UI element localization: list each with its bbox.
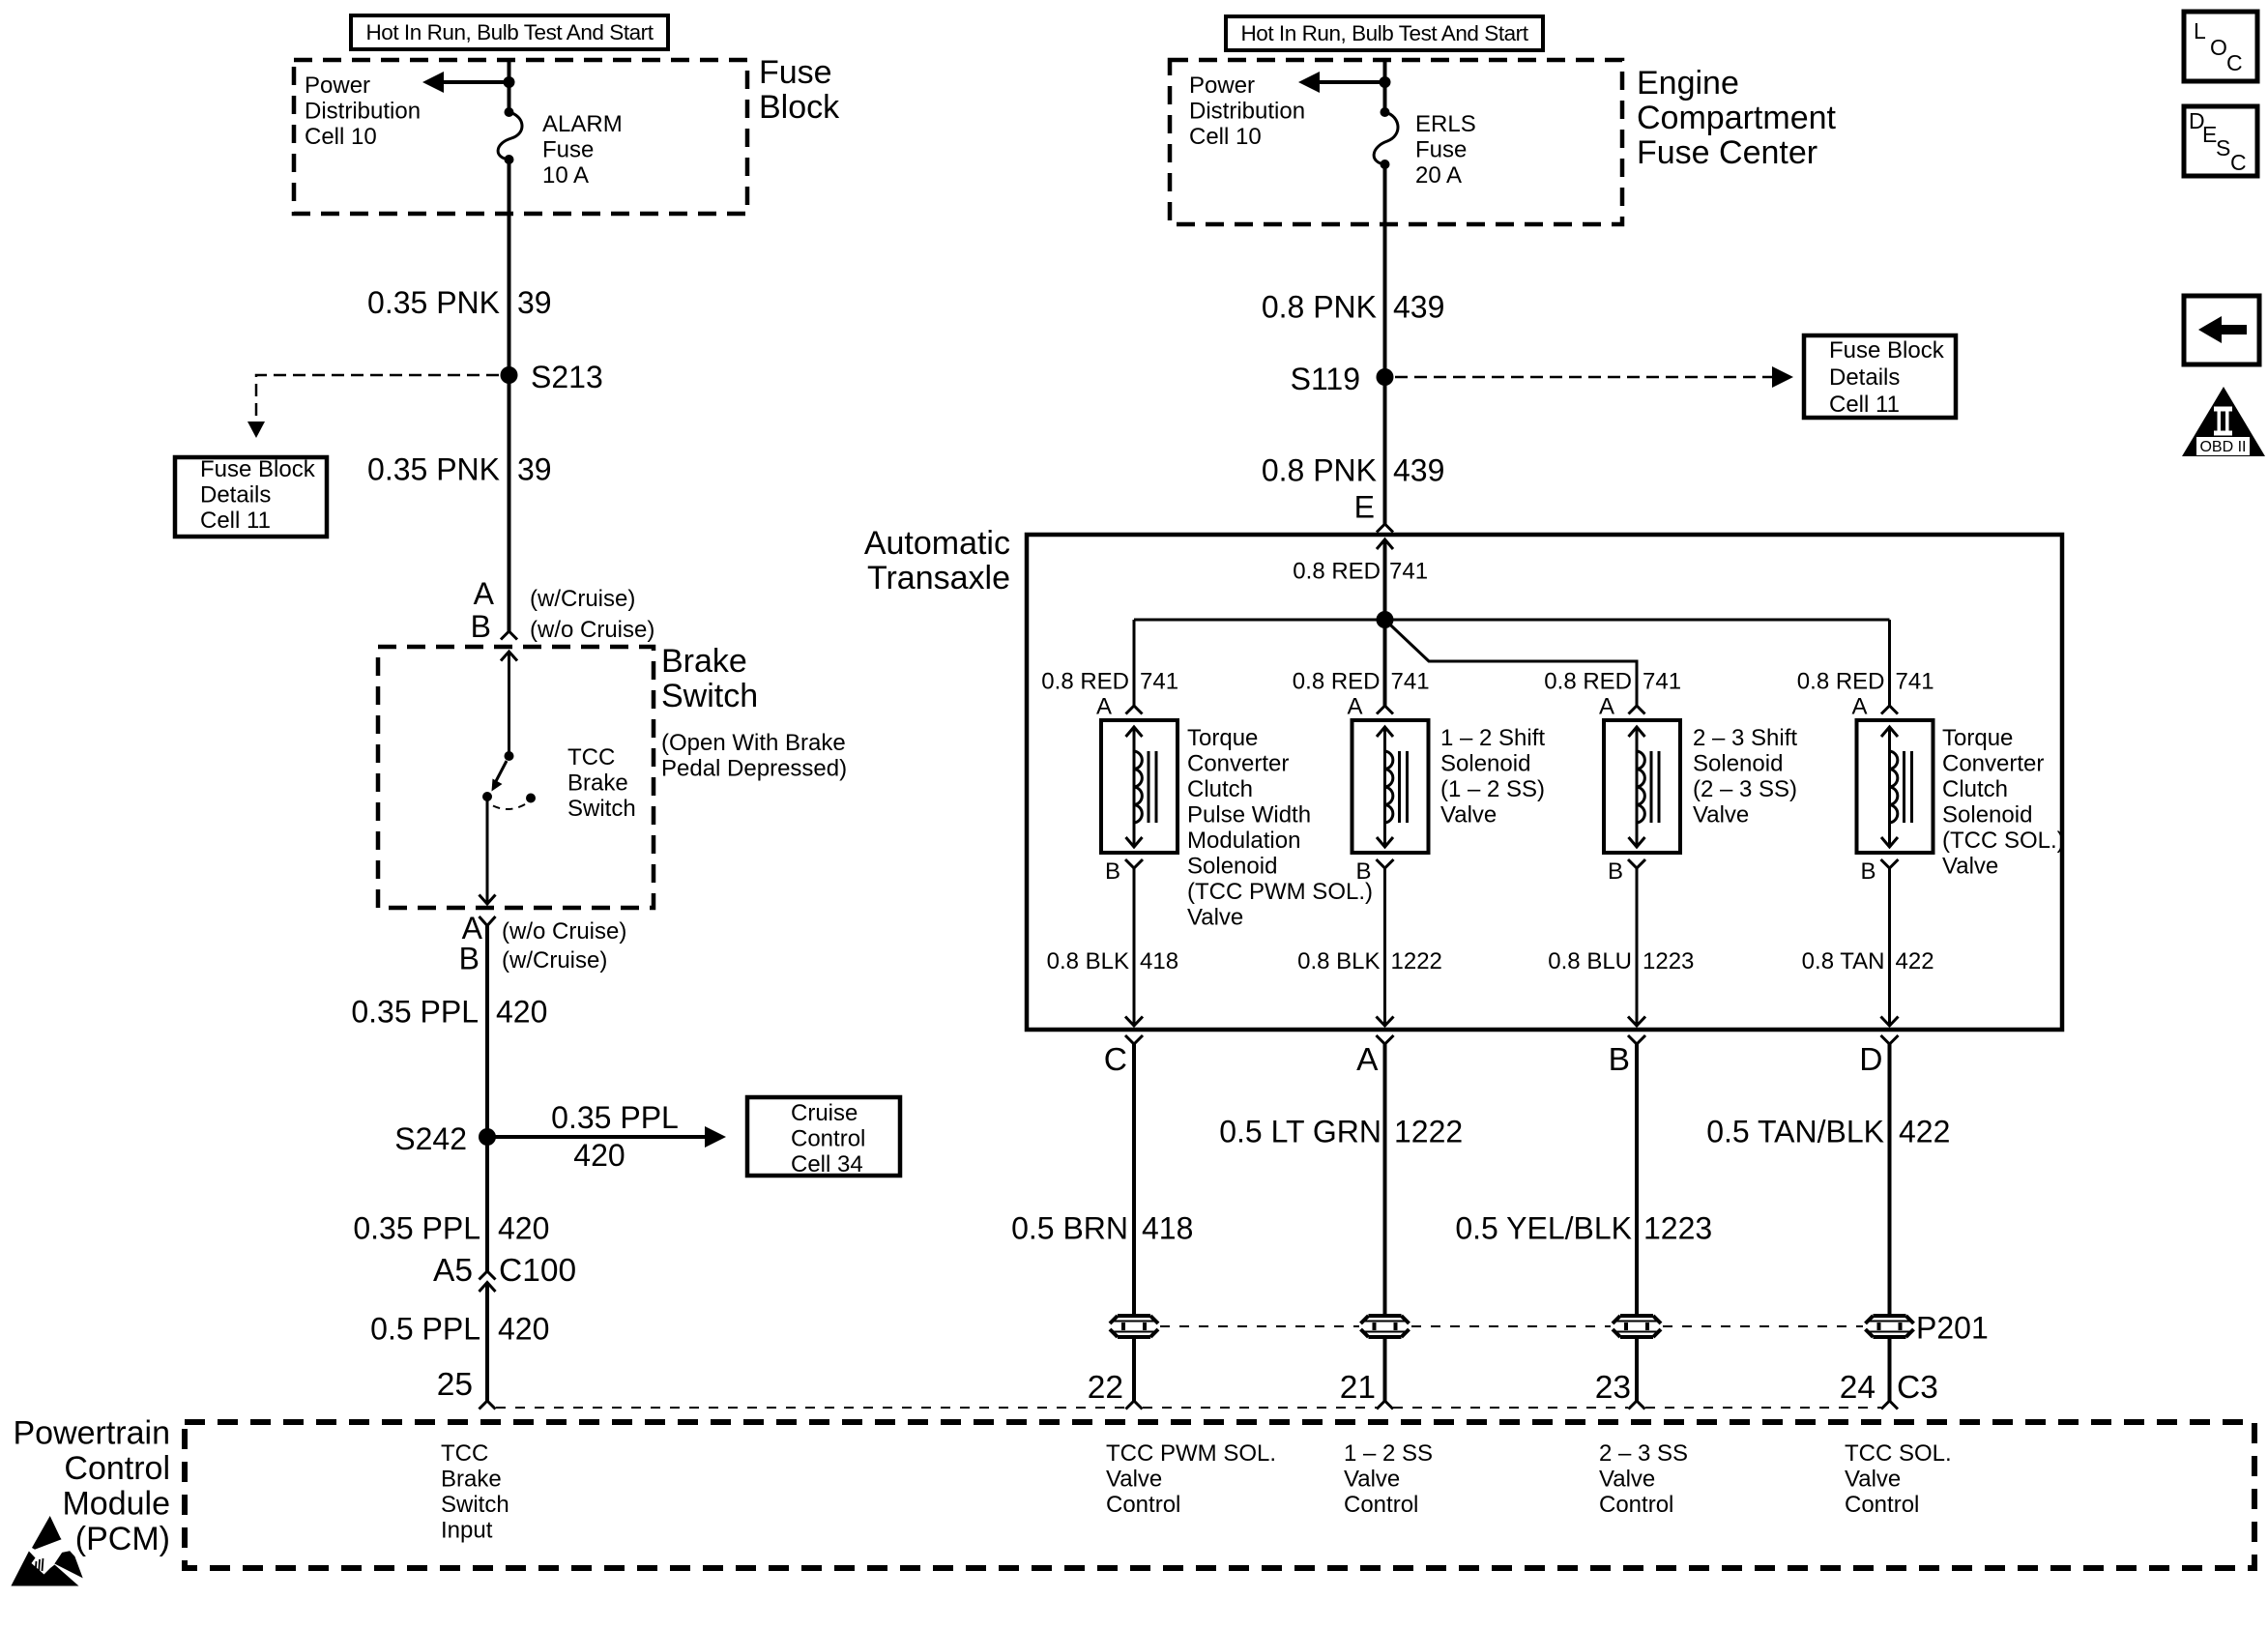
svg-text:Solenoid: Solenoid <box>1440 751 1530 777</box>
svg-text:C100: C100 <box>499 1253 576 1289</box>
svg-text:Valve: Valve <box>1599 1467 1655 1493</box>
svg-text:Clutch: Clutch <box>1187 776 1253 802</box>
svg-text:C3: C3 <box>1897 1370 1938 1406</box>
svg-text:(w/o Cruise): (w/o Cruise) <box>530 617 654 643</box>
svg-text:741: 741 <box>1391 669 1430 695</box>
svg-text:A: A <box>1356 1042 1379 1078</box>
svg-text:Clutch: Clutch <box>1942 776 2008 802</box>
connector P201 pass-through 1 <box>1110 1316 1158 1337</box>
solenoid 2 1-2 shift solenoid coil <box>1352 720 1429 853</box>
svg-text:S213: S213 <box>531 360 603 394</box>
svg-text:0.35 PPL: 0.35 PPL <box>351 995 479 1030</box>
svg-text:0.8 PNK: 0.8 PNK <box>1262 453 1377 488</box>
svg-text:0.5 LT GRN: 0.5 LT GRN <box>1219 1115 1381 1149</box>
node junction dot at power distribution tap (right) <box>1380 76 1391 88</box>
svg-text:Switch: Switch <box>567 796 636 822</box>
node S213 <box>501 360 603 394</box>
svg-text:Distribution: Distribution <box>305 99 421 125</box>
svg-text:24: 24 <box>1840 1370 1875 1406</box>
svg-text:Hot In Run, Bulb Test And Star: Hot In Run, Bulb Test And Start <box>1240 21 1528 45</box>
svg-text:A: A <box>1347 694 1362 720</box>
switch TCC brake switch <box>482 751 536 809</box>
text TCC PWM SOL. Valve Control <box>1106 1440 1276 1518</box>
svg-text:Converter: Converter <box>1942 751 2044 777</box>
connector female half solenoid 2 pin A <box>1377 706 1393 714</box>
svg-text:TCC SOL.: TCC SOL. <box>1845 1440 1952 1467</box>
wire inside brake switch (lower) with down chevron <box>480 797 496 904</box>
text (Open With Brake Pedal Depressed) <box>661 730 847 782</box>
svg-text:1223: 1223 <box>1643 948 1694 974</box>
svg-text:0.5 BRN: 0.5 BRN <box>1011 1211 1128 1246</box>
fuse F1 ALARM 10A <box>498 107 522 164</box>
text 1-2 SS Valve Control <box>1344 1440 1433 1518</box>
connector female half PCM pin 24 <box>1881 1401 1898 1410</box>
svg-text:Fuse: Fuse <box>759 54 832 91</box>
wire P201 to PCM pin 22 <box>1132 1337 1136 1401</box>
svg-text:418: 418 <box>1142 1211 1193 1246</box>
connector male chevron entering transaxle at E <box>1377 539 1393 549</box>
connector female half transaxle pin B <box>1628 1035 1645 1044</box>
connector female half transaxle pin C <box>1125 1035 1143 1044</box>
svg-text:0.35 PPL: 0.35 PPL <box>551 1100 679 1135</box>
fuse block dashed box <box>294 60 747 214</box>
wire solenoid 3 B to transaxle edge <box>1628 868 1645 1026</box>
title Fuse Block <box>759 54 840 126</box>
solenoid 1 TCC PWM solenoid coil <box>1101 720 1178 853</box>
wire label 0.8 RED 741 (branch 3) <box>1544 669 1681 695</box>
wire B to P201 <box>1635 1044 1639 1316</box>
connector P201 pass-through 4 <box>1866 1316 1914 1337</box>
text ALARM Fuse 10 A <box>542 111 623 189</box>
svg-text:Valve: Valve <box>1693 802 1749 829</box>
svg-text:Solenoid: Solenoid <box>1693 751 1783 777</box>
svg-text:Powertrain: Powertrain <box>13 1415 170 1452</box>
svg-text:439: 439 <box>1393 453 1444 488</box>
wire label 0.8 RED 741 (branch 1) <box>1041 669 1178 695</box>
text TCC SOL. Valve Control <box>1845 1440 1952 1518</box>
svg-text:39: 39 <box>517 452 552 487</box>
connector female half solenoid 1 pin A <box>1126 706 1143 714</box>
svg-text:Switch: Switch <box>441 1492 509 1518</box>
svg-text:Details: Details <box>1829 364 1900 391</box>
wire label 0.8 BLK 1222 <box>1297 948 1442 974</box>
svg-text:22: 22 <box>1088 1370 1123 1406</box>
svg-text:Valve: Valve <box>1344 1467 1400 1493</box>
wire label 0.5 BRN 418 <box>1011 1211 1193 1246</box>
wire label 0.5 LT GRN 1222 <box>1219 1115 1463 1149</box>
text TCC Brake Switch Input <box>441 1440 509 1544</box>
symbol ESD warning triangle <box>11 1516 82 1586</box>
wire main vertical (fuse center to transaxle) <box>1383 60 1387 524</box>
svg-text:A: A <box>1599 694 1614 720</box>
svg-text:Power: Power <box>1189 73 1255 99</box>
svg-text:0.8 BLK: 0.8 BLK <box>1297 948 1380 974</box>
connector male chevron entering brake switch <box>501 652 517 661</box>
svg-text:422: 422 <box>1896 948 1934 974</box>
svg-text:Compartment: Compartment <box>1637 100 1837 136</box>
svg-text:10 A: 10 A <box>542 162 589 189</box>
svg-text:TCC PWM SOL.: TCC PWM SOL. <box>1106 1440 1276 1467</box>
symbol back-arrow box <box>2184 296 2259 364</box>
connector female half solenoid 4 pin A <box>1881 706 1898 714</box>
wire feed to solenoid 3 (diagonal) <box>1385 620 1638 706</box>
svg-text:Modulation: Modulation <box>1187 828 1300 854</box>
connector female half PCM pin 22 <box>1126 1401 1143 1410</box>
fuse F2 ERLS 20A <box>1374 107 1398 169</box>
wire dashed to fuse block details <box>247 375 499 438</box>
wire label 0.8 BLU 1223 <box>1548 948 1694 974</box>
svg-text:0.8 RED: 0.8 RED <box>1797 669 1885 695</box>
svg-text:0.5 TAN/BLK: 0.5 TAN/BLK <box>1706 1115 1884 1149</box>
svg-text:422: 422 <box>1899 1115 1950 1149</box>
svg-text:Cell 10: Cell 10 <box>1189 124 1262 150</box>
wire P201 to PCM pin 21 <box>1383 1337 1387 1401</box>
connector female half PCM pin 23 <box>1629 1401 1645 1410</box>
wire label 0.5 TAN/BLK 422 <box>1706 1115 1950 1149</box>
wire dashed between P201 connectors <box>1160 1325 1863 1327</box>
wire arrow to cruise control <box>487 1126 726 1148</box>
svg-text:Valve: Valve <box>1187 905 1243 931</box>
svg-text:0.35 PNK: 0.35 PNK <box>367 452 500 487</box>
wire label 0.8 RED 741 (branch 2) <box>1293 669 1430 695</box>
wire C100 to PCM pin 25 <box>485 1283 489 1402</box>
svg-text:Control: Control <box>1845 1492 1919 1518</box>
svg-text:Cell 10: Cell 10 <box>305 124 377 150</box>
wire P201 to PCM pin 23 <box>1635 1337 1639 1401</box>
svg-text:Input: Input <box>441 1518 493 1544</box>
svg-text:439: 439 <box>1393 290 1444 325</box>
svg-text:2 – 3 Shift: 2 – 3 Shift <box>1693 725 1797 751</box>
feed label box "Hot In Run, Bulb Test And Start" (right) <box>1226 16 1543 50</box>
svg-text:Automatic: Automatic <box>864 525 1010 562</box>
wire drop to solenoid 1 <box>1133 620 1136 706</box>
box Fuse Block Details Cell 11 (left) <box>175 456 327 537</box>
svg-text:741: 741 <box>1896 669 1934 695</box>
svg-text:418: 418 <box>1140 948 1178 974</box>
svg-text:(TCC PWM SOL.): (TCC PWM SOL.) <box>1187 879 1373 905</box>
svg-text:420: 420 <box>498 1312 549 1347</box>
svg-text:Valve: Valve <box>1106 1467 1162 1493</box>
svg-text:Control: Control <box>64 1450 170 1487</box>
svg-text:Pedal Depressed): Pedal Depressed) <box>661 756 847 782</box>
connector female half at brake switch top <box>501 631 517 640</box>
svg-text:C: C <box>2226 50 2243 75</box>
PCM dashed box <box>185 1422 2254 1568</box>
svg-text:A5: A5 <box>433 1253 473 1289</box>
svg-text:(w/Cruise): (w/Cruise) <box>502 947 607 974</box>
svg-text:Transaxle: Transaxle <box>867 560 1010 596</box>
wire label 0.35 PNK 39 (lower) <box>367 452 552 487</box>
svg-text:O: O <box>2210 35 2227 60</box>
svg-text:420: 420 <box>496 995 547 1030</box>
svg-text:Solenoid: Solenoid <box>1187 854 1277 880</box>
svg-text:0.35 PNK: 0.35 PNK <box>367 285 500 320</box>
wire brake switch to S242 <box>485 926 489 1272</box>
wire label 0.35 PNK 39 (upper) <box>367 285 552 320</box>
node S242 <box>394 1121 496 1156</box>
wire rail across transaxle <box>1134 619 1890 622</box>
text label solenoid 3 <box>1693 725 1797 829</box>
svg-text:420: 420 <box>498 1211 549 1246</box>
connector female half solenoid 3 pin B <box>1628 859 1645 868</box>
brake switch dashed box <box>378 647 654 908</box>
svg-text:Torque: Torque <box>1187 725 1258 751</box>
svg-text:A: A <box>474 576 495 611</box>
connector female half at transaxle pin E <box>1377 524 1393 533</box>
svg-text:(TCC SOL.): (TCC SOL.) <box>1942 828 2065 854</box>
wire C to P201 <box>1132 1044 1136 1316</box>
svg-text:Fuse: Fuse <box>542 137 594 163</box>
svg-text:Switch: Switch <box>661 678 758 714</box>
svg-text:Fuse Center: Fuse Center <box>1637 134 1817 171</box>
svg-text:Valve: Valve <box>1942 854 1998 880</box>
svg-text:25: 25 <box>437 1367 473 1403</box>
wire label 0.8 RED 741 (branch 4) <box>1797 669 1934 695</box>
connector female half solenoid 1 pin B <box>1125 859 1143 868</box>
svg-text:Brake: Brake <box>441 1467 502 1493</box>
svg-text:2 – 3 SS: 2 – 3 SS <box>1599 1440 1688 1467</box>
wire label 0.5 YEL/BLK 1223 <box>1455 1211 1712 1246</box>
node junction dot in transaxle <box>1377 611 1394 628</box>
svg-text:0.8 RED: 0.8 RED <box>1293 559 1381 585</box>
svg-text:(Open With Brake: (Open With Brake <box>661 730 846 756</box>
svg-text:OBD II: OBD II <box>2199 439 2246 455</box>
svg-text:21: 21 <box>1340 1370 1376 1406</box>
svg-text:Solenoid: Solenoid <box>1942 802 2032 829</box>
wire label 0.8 PNK 439 (upper) <box>1262 290 1445 325</box>
svg-text:S: S <box>2216 135 2230 160</box>
RIGHT-COLUMN <box>1170 16 1956 533</box>
svg-text:(1 – 2 SS): (1 – 2 SS) <box>1440 776 1545 802</box>
box Cruise Control Cell 34 <box>747 1097 900 1177</box>
solenoid 4 TCC solenoid coil <box>1857 720 1934 853</box>
svg-text:Converter: Converter <box>1187 751 1289 777</box>
PCM <box>13 1035 2254 1568</box>
svg-text:P201: P201 <box>1916 1311 1989 1346</box>
engine compartment fuse center dashed box <box>1170 60 1622 224</box>
box Fuse Block Details Cell 11 (right) <box>1804 335 1956 418</box>
connector P201 pass-through 2 <box>1361 1316 1410 1337</box>
connector female half solenoid 3 pin A <box>1629 706 1645 714</box>
svg-text:0.8 RED: 0.8 RED <box>1041 669 1129 695</box>
wire E to junction <box>1383 539 1387 620</box>
svg-text:L: L <box>2194 18 2206 44</box>
title Automatic Transaxle <box>864 525 1010 596</box>
LEFT-COLUMN <box>175 15 900 1410</box>
svg-text:Module: Module <box>62 1486 170 1523</box>
svg-text:Cell 11: Cell 11 <box>200 508 271 534</box>
wire P201 to PCM pin 24 <box>1888 1337 1892 1401</box>
wire arrow to power distribution (right) <box>1298 72 1385 93</box>
svg-text:TCC: TCC <box>567 744 615 770</box>
wire drop to solenoid 2 <box>1383 620 1387 706</box>
svg-text:Distribution: Distribution <box>1189 99 1305 125</box>
symbol DESC box <box>2184 106 2257 176</box>
node junction dot at power distribution tap <box>504 76 515 88</box>
svg-text:Pulse Width: Pulse Width <box>1187 802 1311 829</box>
svg-text:B: B <box>1860 858 1875 885</box>
svg-text:Torque: Torque <box>1942 725 2013 751</box>
wire solenoid 1 B to transaxle edge <box>1125 868 1143 1026</box>
wire solenoid 2 B to transaxle edge <box>1377 868 1394 1026</box>
svg-text:D: D <box>1859 1042 1882 1078</box>
svg-text:S242: S242 <box>394 1121 467 1156</box>
text label solenoid 4 <box>1942 725 2065 880</box>
svg-text:Control: Control <box>1344 1492 1418 1518</box>
svg-text:741: 741 <box>1389 559 1428 585</box>
svg-text:1 – 2 Shift: 1 – 2 Shift <box>1440 725 1545 751</box>
wire solenoid 4 B to transaxle edge <box>1881 868 1899 1026</box>
svg-text:C: C <box>2230 150 2247 175</box>
wire label 0.8 RED 741 (feed) <box>1293 559 1428 585</box>
svg-text:TCC: TCC <box>441 1440 488 1467</box>
svg-text:0.8 RED: 0.8 RED <box>1544 669 1632 695</box>
connector female half transaxle pin D <box>1881 1035 1899 1044</box>
solenoid 3 2-3 shift solenoid coil <box>1604 720 1680 853</box>
wire arrow to power distribution <box>422 72 509 93</box>
svg-text:C: C <box>1104 1042 1127 1078</box>
svg-text:Brake: Brake <box>567 770 628 797</box>
title Powertrain Control Module (PCM) <box>13 1415 170 1558</box>
svg-text:(PCM): (PCM) <box>75 1521 170 1557</box>
feed label box "Hot In Run, Bulb Test And Start" (left) <box>351 15 668 49</box>
svg-text:39: 39 <box>517 285 552 320</box>
svg-text:0.8 RED: 0.8 RED <box>1293 669 1381 695</box>
automatic transaxle box <box>1027 535 2062 1030</box>
connector P201 pass-through 3 <box>1613 1316 1661 1337</box>
svg-text:420: 420 <box>573 1138 625 1173</box>
svg-text:Cell 11: Cell 11 <box>1829 392 1900 418</box>
svg-text:E: E <box>1354 490 1375 525</box>
svg-text:0.5 PPL: 0.5 PPL <box>370 1312 480 1347</box>
svg-text:(w/o Cruise): (w/o Cruise) <box>502 918 626 945</box>
wire dashed arrow to fuse block details (right) <box>1395 366 1793 388</box>
svg-text:Cruise: Cruise <box>791 1100 858 1126</box>
svg-text:Valve: Valve <box>1845 1467 1901 1493</box>
svg-text:B: B <box>1609 1042 1630 1078</box>
svg-text:1 – 2 SS: 1 – 2 SS <box>1344 1440 1433 1467</box>
svg-text:Control: Control <box>1106 1492 1180 1518</box>
svg-text:741: 741 <box>1140 669 1178 695</box>
wire inside brake switch (upper) <box>508 652 510 756</box>
svg-text:0.8 PNK: 0.8 PNK <box>1262 290 1377 325</box>
text 2-3 SS Valve Control <box>1599 1440 1688 1518</box>
svg-text:Control: Control <box>1599 1492 1673 1518</box>
svg-text:0.8 TAN: 0.8 TAN <box>1802 948 1885 974</box>
connector female half below brake switch <box>480 916 496 926</box>
svg-text:Fuse Block: Fuse Block <box>200 456 316 482</box>
svg-text:1223: 1223 <box>1643 1211 1712 1246</box>
wire dashed connector C3 row <box>496 1407 1881 1409</box>
svg-text:(2 – 3 SS): (2 – 3 SS) <box>1693 776 1797 802</box>
svg-text:B: B <box>1608 858 1623 885</box>
svg-text:Hot In Run, Bulb Test And Star: Hot In Run, Bulb Test And Start <box>365 20 654 44</box>
svg-text:Fuse Block: Fuse Block <box>1829 337 1945 363</box>
wire A to P201 <box>1383 1044 1387 1316</box>
symbol OBD II triangle <box>2182 387 2265 456</box>
svg-text:A: A <box>1096 694 1112 720</box>
svg-text:Block: Block <box>759 89 840 126</box>
svg-text:Control: Control <box>791 1126 865 1152</box>
text TCC Brake Switch <box>567 744 636 822</box>
svg-text:ERLS: ERLS <box>1415 111 1476 137</box>
connector female half PCM pin 21 <box>1377 1401 1393 1410</box>
svg-text:23: 23 <box>1595 1370 1631 1406</box>
svg-text:B: B <box>459 942 480 976</box>
connector female half at PCM pin 25 <box>480 1401 496 1410</box>
connector female half transaxle pin A <box>1377 1035 1394 1044</box>
node S119 <box>1291 362 1394 396</box>
wire label 0.5 PPL 420 <box>370 1312 549 1347</box>
svg-text:A: A <box>1851 694 1867 720</box>
text label solenoid 2 <box>1440 725 1545 829</box>
svg-text:0.5 YEL/BLK: 0.5 YEL/BLK <box>1455 1211 1632 1246</box>
svg-text:S119: S119 <box>1291 362 1360 396</box>
title Brake Switch <box>661 643 758 714</box>
wire label 0.35 PPL 420 (lower) <box>353 1211 549 1246</box>
svg-text:Power: Power <box>305 73 370 99</box>
svg-text:20 A: 20 A <box>1415 162 1462 189</box>
wire label 0.8 BLK 418 <box>1047 948 1178 974</box>
svg-text:ALARM: ALARM <box>542 111 623 137</box>
svg-text:B: B <box>1105 858 1120 885</box>
svg-text:Fuse: Fuse <box>1415 137 1467 163</box>
svg-text:Valve: Valve <box>1440 802 1497 829</box>
svg-text:0.8 BLK: 0.8 BLK <box>1047 948 1129 974</box>
text label solenoid 1 <box>1187 725 1373 931</box>
symbol LOC box <box>2184 12 2257 81</box>
svg-text:B: B <box>471 609 491 644</box>
text Power Distribution Cell 10 (left) <box>305 73 421 150</box>
svg-text:1222: 1222 <box>1394 1115 1463 1149</box>
text Power Distribution Cell 10 (right) <box>1189 73 1305 150</box>
wire label 0.35 PPL 420 (upper) <box>351 995 547 1030</box>
svg-text:Cell 34: Cell 34 <box>791 1151 863 1177</box>
title Engine Compartment Fuse Center <box>1637 65 1837 171</box>
connector female half solenoid 2 pin B <box>1377 859 1394 868</box>
wire label 0.8 TAN 422 <box>1802 948 1934 974</box>
svg-text:Engine: Engine <box>1637 65 1739 102</box>
svg-text:(w/Cruise): (w/Cruise) <box>530 586 635 612</box>
wire drop to solenoid 4 <box>1888 620 1891 706</box>
svg-text:B: B <box>1355 858 1371 885</box>
wire D to P201 <box>1888 1044 1892 1316</box>
svg-text:741: 741 <box>1643 669 1681 695</box>
svg-text:0.35 PPL: 0.35 PPL <box>353 1211 480 1246</box>
text ERLS Fuse 20 A <box>1415 111 1476 189</box>
wire label 0.8 PNK 439 (lower) <box>1262 453 1445 488</box>
svg-text:Brake: Brake <box>661 643 747 680</box>
wire main vertical (fuse block to brake switch) <box>508 60 511 631</box>
svg-text:0.8 BLU: 0.8 BLU <box>1548 948 1632 974</box>
connector C100 pin A5 <box>433 1253 576 1292</box>
svg-text:Details: Details <box>200 482 271 509</box>
connector female half solenoid 4 pin B <box>1881 859 1899 868</box>
svg-text:1222: 1222 <box>1391 948 1442 974</box>
